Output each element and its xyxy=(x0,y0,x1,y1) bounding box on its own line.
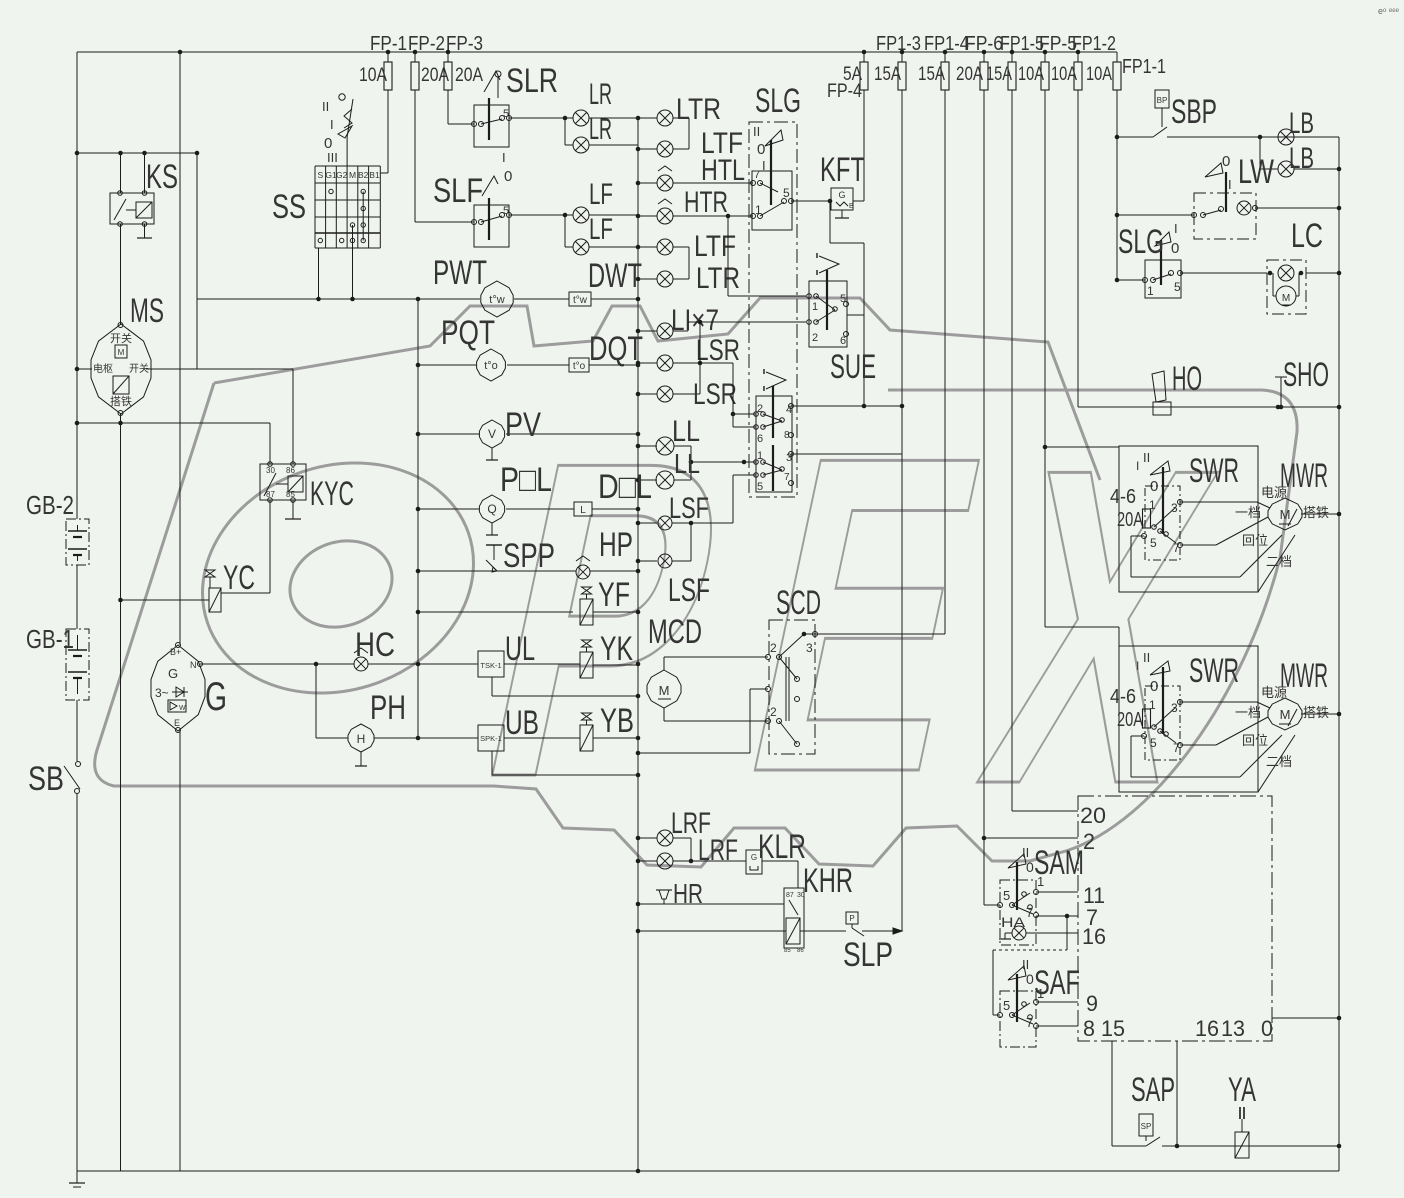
wires to SUE contacts xyxy=(728,295,806,297)
svg-text:5: 5 xyxy=(503,108,509,120)
svg-text:PWT: PWT xyxy=(433,254,487,292)
svg-text:FP-4: FP-4 xyxy=(827,81,862,102)
SCD bottom wire to bus xyxy=(638,752,750,754)
svg-text:0: 0 xyxy=(504,168,512,185)
svg-text:GB-1: GB-1 xyxy=(26,624,74,654)
pin20 wire xyxy=(1012,810,1078,812)
svg-text:20A: 20A xyxy=(1117,509,1143,531)
svg-text:HTL: HTL xyxy=(701,154,745,187)
sender DOL xyxy=(574,502,592,516)
pressure switch SPP xyxy=(418,570,576,572)
switch SCD xyxy=(769,620,815,754)
svg-text:3: 3 xyxy=(806,641,813,655)
flasher KLR xyxy=(746,850,762,874)
svg-text:MWR: MWR xyxy=(1280,457,1328,495)
lamp LTR front xyxy=(638,117,657,119)
horn HR xyxy=(656,889,672,891)
switch group SLG box xyxy=(749,122,797,497)
svg-text:HA: HA xyxy=(1001,914,1026,930)
switch SUE upper xyxy=(809,281,847,347)
svg-text:P□L: P□L xyxy=(500,461,552,499)
svg-text:5: 5 xyxy=(840,293,846,305)
lamp LRF 1 xyxy=(638,837,657,839)
svg-text:LL: LL xyxy=(672,415,700,448)
svg-text:LR: LR xyxy=(589,78,612,111)
svg-text:KLR: KLR xyxy=(758,828,806,866)
svg-text:20A: 20A xyxy=(421,65,449,86)
valve YC xyxy=(209,588,221,612)
svg-text:SUE: SUE xyxy=(830,348,876,386)
svg-text:FP1-3: FP1-3 xyxy=(876,33,921,55)
svg-text:I: I xyxy=(1228,177,1232,192)
svg-text:GB-2: GB-2 xyxy=(26,490,74,520)
lamp LB 1 xyxy=(1278,129,1294,145)
svg-text:1: 1 xyxy=(1149,498,1156,512)
svg-text:II: II xyxy=(1022,957,1029,972)
svg-text:HC: HC xyxy=(355,626,395,664)
gauge PQT xyxy=(418,364,476,366)
svg-text:PV: PV xyxy=(505,406,541,444)
svg-text:SPP: SPP xyxy=(503,537,555,575)
svg-text:SLR: SLR xyxy=(506,62,558,100)
controller UL TSK-1 xyxy=(478,651,504,677)
svg-text:YF: YF xyxy=(598,576,630,614)
lamp LTR rear xyxy=(638,278,657,280)
svg-text:HTR: HTR xyxy=(684,186,728,219)
svg-text:t°o: t°o xyxy=(573,361,586,372)
svg-text:H: H xyxy=(357,732,366,746)
lamp LB 2 xyxy=(1259,137,1261,169)
svg-text:10A: 10A xyxy=(1018,64,1044,85)
svg-text:DQT: DQT xyxy=(589,330,643,368)
svg-text:III: III xyxy=(327,150,338,165)
battery GB-1 xyxy=(66,629,89,700)
svg-text:I: I xyxy=(1136,459,1139,473)
svg-text:2: 2 xyxy=(1083,829,1095,854)
ground symbol bottom left xyxy=(76,1171,78,1183)
SLG contacts xyxy=(752,171,792,230)
watermark letters PEX xyxy=(450,364,1250,878)
svg-text:二档: 二档 xyxy=(1266,554,1292,569)
svg-text:B+: B+ xyxy=(170,647,181,657)
svg-text:V: V xyxy=(488,427,496,441)
pin2 wire xyxy=(984,837,1078,839)
switch SLG lower section xyxy=(756,396,792,492)
svg-text:eᵒ ᵉᵉᵉ: eᵒ ᵉᵉᵉ xyxy=(1378,6,1400,16)
bus x121 KS/MS/battery chain xyxy=(120,153,122,193)
svg-text:电源: 电源 xyxy=(1261,685,1287,700)
lamp LTF rear xyxy=(638,246,657,248)
svg-text:E: E xyxy=(174,718,180,728)
svg-text:SPK-1: SPK-1 xyxy=(480,734,502,743)
svg-text:LTF: LTF xyxy=(694,230,736,263)
switch SHO xyxy=(1275,376,1287,378)
svg-text:LSR: LSR xyxy=(693,378,737,411)
watermark letter O xyxy=(171,427,505,729)
svg-text:16: 16 xyxy=(1195,1016,1219,1041)
fuse FP-4 5A xyxy=(863,52,865,62)
svg-text:SWR: SWR xyxy=(1189,652,1239,690)
svg-text:G: G xyxy=(838,190,845,200)
switch SBP xyxy=(1155,90,1169,108)
svg-text:1: 1 xyxy=(1147,284,1154,298)
connector block xyxy=(1078,796,1272,1041)
fuse FP-2 20A xyxy=(414,52,416,62)
lamp LL 1 xyxy=(638,445,657,447)
svg-text:SB: SB xyxy=(28,760,64,798)
lamp HTR xyxy=(638,215,657,217)
svg-text:15A: 15A xyxy=(918,64,945,85)
svg-text:PQT: PQT xyxy=(441,314,495,352)
watermark gear rim xyxy=(95,383,1297,867)
wiper motor MWR upper xyxy=(1268,498,1302,530)
svg-text:13: 13 xyxy=(1221,1016,1245,1041)
svg-text:KFT: KFT xyxy=(820,151,865,189)
master switch MS xyxy=(91,324,151,414)
svg-text:I: I xyxy=(330,117,334,132)
svg-text:FP1-5: FP1-5 xyxy=(1000,33,1044,55)
start switch SS table xyxy=(314,166,316,248)
fuse FP-6 20A xyxy=(983,52,985,62)
YC feed wire xyxy=(121,599,210,601)
svg-text:15: 15 xyxy=(1101,1016,1125,1041)
svg-text:t°w: t°w xyxy=(573,295,588,306)
svg-text:I: I xyxy=(1174,221,1178,236)
svg-text:SS: SS xyxy=(272,188,306,226)
svg-text:一档: 一档 xyxy=(1235,505,1261,520)
fuse FP1-2 10A xyxy=(1077,52,1079,62)
svg-text:85: 85 xyxy=(286,490,295,499)
svg-text:2: 2 xyxy=(757,403,763,415)
bottom ground bus xyxy=(77,1170,1339,1172)
gauge PWT xyxy=(481,281,513,317)
svg-text:4-6: 4-6 xyxy=(1110,486,1136,508)
svg-text:LC: LC xyxy=(1291,217,1323,255)
svg-text:87: 87 xyxy=(266,490,275,499)
lamp LL 2 xyxy=(638,479,657,481)
battery GB-2 xyxy=(66,519,89,565)
wiper motor MWR lower xyxy=(1268,698,1302,730)
fuse FP1-1 10A xyxy=(1116,52,1118,62)
svg-text:电枢: 电枢 xyxy=(93,362,113,375)
solenoid YA xyxy=(1235,1132,1249,1158)
svg-text:B1: B1 xyxy=(369,170,380,180)
svg-text:BP: BP xyxy=(1157,96,1168,105)
svg-text:TSK-1: TSK-1 xyxy=(480,661,501,670)
svg-text:LB: LB xyxy=(1289,142,1314,175)
lamp LSR 1 xyxy=(638,362,657,364)
wire y369 MS-KYC xyxy=(146,368,293,370)
KFT relay xyxy=(791,200,831,202)
wire y153 xyxy=(77,152,197,154)
svg-text:M: M xyxy=(1280,707,1291,722)
lamps LR xyxy=(509,117,573,119)
relay KS xyxy=(110,193,154,224)
svg-text:7: 7 xyxy=(1173,741,1180,755)
svg-text:1: 1 xyxy=(757,450,763,462)
svg-text:II: II xyxy=(1143,450,1150,465)
svg-text:LW: LW xyxy=(1238,153,1274,191)
svg-text:15A: 15A xyxy=(874,64,901,85)
svg-text:UB: UB xyxy=(505,704,539,742)
fuse FP-3 20A xyxy=(447,52,449,62)
fuse FP1-5 15A xyxy=(1011,52,1013,62)
SAF feed wire xyxy=(993,949,1067,951)
svg-text:M: M xyxy=(349,170,356,180)
lamp LRF 2 xyxy=(638,860,657,862)
svg-text:YA: YA xyxy=(1228,1071,1256,1109)
svg-text:1: 1 xyxy=(812,301,818,313)
motor MCD xyxy=(647,670,681,708)
switch SLG cab light xyxy=(1117,279,1145,281)
svg-text:5: 5 xyxy=(1174,280,1181,294)
fuse FP1-4 15A xyxy=(944,52,946,62)
svg-text:LF: LF xyxy=(589,213,613,246)
svg-text:6: 6 xyxy=(840,335,846,347)
svg-text:5: 5 xyxy=(1150,536,1157,550)
svg-text:2: 2 xyxy=(770,705,777,719)
svg-text:20: 20 xyxy=(1080,803,1106,828)
fuse FP1-3 15A xyxy=(901,52,903,62)
valve YB xyxy=(580,725,593,751)
svg-text:G: G xyxy=(205,675,227,719)
valve YF row xyxy=(418,611,573,613)
switch LW xyxy=(1116,137,1118,280)
svg-text:LF: LF xyxy=(589,178,613,211)
svg-text:M: M xyxy=(659,683,670,698)
svg-text:LI×7: LI×7 xyxy=(671,304,719,337)
svg-text:LSF: LSF xyxy=(669,492,709,525)
horn PH row xyxy=(315,664,317,738)
svg-text:MWR: MWR xyxy=(1280,657,1328,695)
svg-text:HP: HP xyxy=(599,526,633,564)
svg-text:I: I xyxy=(1136,659,1139,673)
svg-text:YC: YC xyxy=(223,559,255,597)
svg-text:HO: HO xyxy=(1172,360,1202,398)
svg-text:7: 7 xyxy=(754,169,760,181)
svg-text:5: 5 xyxy=(503,205,509,217)
svg-text:7: 7 xyxy=(1026,1015,1033,1030)
svg-text:5: 5 xyxy=(1003,888,1010,903)
svg-text:87: 87 xyxy=(786,892,794,899)
svg-text:SBP: SBP xyxy=(1171,93,1217,131)
svg-text:MS: MS xyxy=(130,292,164,330)
fuse FP-5 10A xyxy=(1044,52,1046,62)
svg-text:10A: 10A xyxy=(1051,64,1077,85)
svg-text:86: 86 xyxy=(286,466,295,475)
svg-text:回位: 回位 xyxy=(1242,533,1268,548)
svg-text:20A: 20A xyxy=(455,65,483,86)
fuse FP-1 10A xyxy=(387,52,389,62)
svg-text:7: 7 xyxy=(1173,541,1180,555)
SUE outputs right xyxy=(791,453,902,455)
svg-text:SLP: SLP xyxy=(843,936,893,974)
UB bottom wire xyxy=(491,751,493,775)
gauge POL oil pressure xyxy=(418,508,479,510)
bus x180 xyxy=(179,52,181,645)
SS contact circles xyxy=(329,189,333,193)
svg-text:9: 9 xyxy=(1086,991,1098,1016)
svg-text:10A: 10A xyxy=(359,65,387,86)
svg-text:7: 7 xyxy=(1026,905,1033,920)
svg-text:KS: KS xyxy=(146,158,178,196)
lamp LI x7 xyxy=(638,330,657,332)
lamps LF xyxy=(509,214,573,216)
svg-text:搭铁: 搭铁 xyxy=(1303,705,1329,720)
svg-text:M: M xyxy=(1282,293,1290,304)
svg-text:SWR: SWR xyxy=(1189,452,1239,490)
svg-text:5: 5 xyxy=(757,481,763,493)
lamp LSF 2 xyxy=(638,560,657,562)
svg-text:2: 2 xyxy=(812,332,818,344)
svg-text:G: G xyxy=(751,853,757,862)
relay KYC xyxy=(260,464,306,500)
svg-text:Q: Q xyxy=(487,502,496,516)
svg-text:II: II xyxy=(1022,845,1029,860)
svg-text:1: 1 xyxy=(1037,874,1044,889)
pin0 wire xyxy=(1272,1017,1339,1019)
svg-text:20A: 20A xyxy=(1117,709,1143,731)
svg-text:D□L: D□L xyxy=(598,468,652,506)
SCD top wire to SAM block xyxy=(804,633,945,635)
svg-text:II: II xyxy=(753,124,760,139)
svg-text:电源: 电源 xyxy=(1261,485,1287,500)
svg-text:16: 16 xyxy=(1082,924,1106,949)
svg-text:2: 2 xyxy=(770,641,777,655)
svg-text:5: 5 xyxy=(783,186,790,200)
svg-text:N: N xyxy=(190,660,197,670)
svg-text:3: 3 xyxy=(1171,501,1178,515)
bus junction dots xyxy=(636,116,641,121)
sender DWT xyxy=(569,292,591,306)
svg-text:G: G xyxy=(168,666,178,681)
svg-text:LSF: LSF xyxy=(668,572,710,608)
svg-text:4-6: 4-6 xyxy=(1110,686,1136,708)
svg-text:LL: LL xyxy=(674,448,700,479)
svg-text:SHO: SHO xyxy=(1283,356,1329,394)
svg-text:0: 0 xyxy=(757,141,765,158)
sender DQT xyxy=(569,358,589,372)
svg-text:B: B xyxy=(849,203,854,210)
svg-text:7: 7 xyxy=(784,472,790,483)
svg-text:MCD: MCD xyxy=(648,613,702,651)
svg-text:20A: 20A xyxy=(956,64,983,85)
svg-text:85: 85 xyxy=(784,948,791,954)
wire LL to SUE pin1 xyxy=(691,461,756,463)
svg-text:5: 5 xyxy=(1003,998,1010,1013)
svg-text:M: M xyxy=(1280,507,1291,522)
dome light LC xyxy=(1180,272,1267,274)
svg-text:8: 8 xyxy=(1083,1016,1095,1041)
svg-text:86: 86 xyxy=(797,948,804,954)
wiper switch SWR upper xyxy=(1119,446,1258,592)
svg-text:5: 5 xyxy=(1150,736,1157,750)
switch SAM xyxy=(1000,880,1036,945)
svg-text:LTR: LTR xyxy=(676,93,721,126)
generator G xyxy=(151,645,205,731)
svg-text:1: 1 xyxy=(1149,698,1156,712)
relay KHR xyxy=(797,861,799,888)
svg-text:0: 0 xyxy=(1261,1016,1273,1041)
svg-text:FP1-1: FP1-1 xyxy=(1122,56,1166,78)
svg-text:SP: SP xyxy=(1141,1122,1152,1131)
switch SAP xyxy=(1112,1145,1146,1147)
lamp LSR 2 xyxy=(638,393,657,395)
svg-text:3~: 3~ xyxy=(155,686,169,700)
KS ground xyxy=(144,224,146,238)
right border bus xyxy=(1338,137,1340,1171)
main center bus x638 xyxy=(637,118,639,1171)
KYC 87 to YC xyxy=(269,500,271,593)
wire y423 xyxy=(77,422,270,424)
svg-text:0: 0 xyxy=(1026,971,1034,987)
svg-text:II: II xyxy=(1143,650,1150,665)
svg-text:SLG: SLG xyxy=(755,82,801,120)
switch SAF xyxy=(1000,991,1036,1047)
svg-text:10A: 10A xyxy=(1086,64,1112,85)
center wire x418 xyxy=(417,299,419,738)
svg-text:1: 1 xyxy=(1037,986,1044,1001)
svg-text:3: 3 xyxy=(1171,701,1178,715)
svg-text:M: M xyxy=(118,348,125,357)
svg-text:SLF: SLF xyxy=(433,172,483,210)
svg-text:KHR: KHR xyxy=(803,862,853,900)
UL bottom wire xyxy=(491,677,493,696)
wiper switch SWR lower xyxy=(1119,646,1258,792)
switch SUE lower contacts xyxy=(754,460,759,465)
svg-text:LSR: LSR xyxy=(696,334,740,367)
svg-text:P: P xyxy=(849,914,854,923)
svg-text:LR: LR xyxy=(589,113,612,146)
svg-text:0: 0 xyxy=(1222,153,1230,170)
watermark gear teeth top xyxy=(214,298,1100,480)
svg-text:t°w: t°w xyxy=(489,294,504,306)
pin15/16 wires down xyxy=(1111,1041,1113,1146)
KYC 85 ground xyxy=(292,500,294,519)
svg-text:搭铁: 搭铁 xyxy=(1303,505,1329,520)
SS lever xyxy=(346,137,348,166)
svg-text:G2: G2 xyxy=(336,170,348,180)
wire x197 KS to KYC xyxy=(196,153,198,369)
valve YK xyxy=(580,652,593,678)
switch SLR xyxy=(474,105,509,147)
gauge PV voltmeter xyxy=(418,433,479,435)
KFT to SUE wire xyxy=(829,201,831,243)
LSF wire up to SUE switch xyxy=(732,475,734,523)
svg-text:FP-3: FP-3 xyxy=(446,33,483,55)
svg-text:SLG: SLG xyxy=(1118,223,1164,261)
svg-text:YK: YK xyxy=(600,630,633,668)
lamp HTL xyxy=(638,182,657,184)
controller UB SPK-1 xyxy=(478,725,504,751)
svg-text:KYC: KYC xyxy=(310,475,354,513)
svg-text:SAP: SAP xyxy=(1131,1071,1175,1109)
svg-text:开关: 开关 xyxy=(129,362,149,375)
svg-text:L: L xyxy=(580,505,586,516)
svg-text:LB: LB xyxy=(1289,107,1314,140)
svg-text:t°o: t°o xyxy=(484,360,498,372)
SS wires down xyxy=(318,248,320,299)
switch SLF xyxy=(474,205,509,247)
lamp LTF front xyxy=(638,148,657,150)
svg-text:LRF: LRF xyxy=(698,834,738,867)
svg-text:S: S xyxy=(317,170,323,180)
top supply bus xyxy=(77,51,1117,53)
svg-text:UL: UL xyxy=(505,630,535,668)
horn HO xyxy=(1078,406,1339,408)
svg-text:6: 6 xyxy=(757,433,763,445)
svg-text:B2: B2 xyxy=(358,170,369,180)
